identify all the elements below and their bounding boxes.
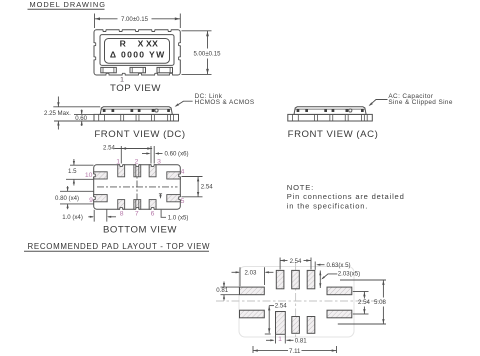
bottom view dim 0.80 (x4) bbox=[60, 190, 94, 192]
svg-text:FRONT VIEW (AC): FRONT VIEW (AC) bbox=[288, 129, 379, 140]
svg-text:Δ 0000 YW: Δ 0000 YW bbox=[110, 49, 166, 59]
svg-text:2.03: 2.03 bbox=[245, 270, 257, 277]
svg-text:2.54: 2.54 bbox=[201, 183, 213, 190]
front view base bbox=[288, 114, 373, 121]
svg-text:7.00±0.15: 7.00±0.15 bbox=[121, 16, 149, 23]
AC leader line bbox=[370, 100, 388, 106]
svg-text:9: 9 bbox=[89, 197, 93, 204]
svg-text:2.54: 2.54 bbox=[103, 145, 115, 152]
svg-text:2: 2 bbox=[135, 158, 139, 165]
bottom view notches bbox=[120, 164, 123, 166]
dimension 0.60 extension bbox=[74, 113, 94, 115]
svg-text:TOP VIEW: TOP VIEW bbox=[110, 83, 161, 94]
front view lid contact marks bbox=[103, 109, 106, 112]
front view base bbox=[94, 114, 179, 121]
svg-text:0.81: 0.81 bbox=[295, 338, 307, 345]
dimension 0.60 arrows bbox=[81, 110, 83, 115]
svg-text:5: 5 bbox=[181, 198, 185, 205]
svg-text:1: 1 bbox=[278, 336, 282, 343]
svg-text:Pin connections are detailed: Pin connections are detailed bbox=[287, 192, 405, 201]
svg-text:in the specification.: in the specification. bbox=[287, 201, 368, 210]
pad layout center lines bbox=[216, 300, 384, 302]
pad layout dim 2.03 left bbox=[239, 267, 241, 286]
top view marking area bbox=[105, 39, 170, 64]
svg-text:1.0 (x4): 1.0 (x4) bbox=[62, 214, 83, 221]
pad layout dim 0.63(x 5) bbox=[314, 262, 316, 270]
top view edge notches bbox=[103, 29, 106, 31]
front view lid circle mark bbox=[155, 109, 158, 112]
svg-text:2.54: 2.54 bbox=[275, 303, 287, 310]
pad layout dim 0.81 left bbox=[221, 286, 240, 288]
front view lid contact marks bbox=[297, 109, 300, 112]
svg-text:X: X bbox=[138, 39, 144, 49]
bottom view pad 1 bbox=[118, 165, 125, 177]
front view lid circle mark bbox=[349, 109, 352, 112]
svg-text:0.63(x 5): 0.63(x 5) bbox=[327, 262, 351, 269]
pad layout right pads bbox=[327, 287, 352, 295]
svg-text:1.0 (x5): 1.0 (x5) bbox=[168, 214, 189, 221]
svg-text:0.80 (x4): 0.80 (x4) bbox=[55, 195, 79, 202]
bottom view pad 8 bbox=[118, 200, 125, 210]
top view package body bbox=[94, 30, 180, 75]
top view bottom pads bbox=[101, 67, 117, 72]
front view base dividers bbox=[98, 114, 100, 121]
svg-text:2.54: 2.54 bbox=[358, 299, 370, 306]
svg-text:0.60: 0.60 bbox=[75, 115, 87, 122]
bottom view dim 2.54 top bbox=[120, 146, 122, 164]
pad layout faint outline bbox=[239, 267, 354, 338]
svg-text:RECOMMENDED PAD LAYOUT - TOP: RECOMMENDED PAD LAYOUT - TOP VIEW bbox=[28, 242, 211, 251]
svg-text:MODEL DRAWING: MODEL DRAWING bbox=[30, 0, 107, 9]
dimension 5.00 line bbox=[207, 31, 209, 49]
svg-text:7.11: 7.11 bbox=[289, 348, 301, 355]
pad layout dim 0.81 bottom bbox=[275, 335, 277, 344]
bottom view pad 7 bbox=[134, 200, 141, 210]
bottom view pad 6 bbox=[149, 200, 156, 210]
svg-text:2.25 Max.: 2.25 Max. bbox=[44, 110, 71, 117]
dimension 5.00 extension lines bbox=[182, 30, 212, 32]
pad layout dim 7.11 bbox=[252, 346, 254, 353]
bottom view dim 1.0 (x4) bbox=[93, 210, 95, 222]
front view lid bbox=[294, 107, 366, 115]
svg-text:NOTE:: NOTE: bbox=[287, 183, 314, 192]
pad layout dim 2.54 top bbox=[279, 258, 281, 270]
front view lid bbox=[100, 107, 172, 115]
dimension 2.25 Max arrows bbox=[57, 97, 59, 107]
svg-text:XX: XX bbox=[146, 39, 158, 49]
pad layout left pads bbox=[240, 287, 265, 295]
pad layout dim 2.54 center bbox=[268, 306, 270, 334]
bottom view center lines bbox=[97, 186, 178, 188]
bottom view dim 1.0 (x5) bbox=[159, 193, 162, 195]
svg-text:5.08: 5.08 bbox=[374, 299, 386, 306]
pad layout bottom pad pin1 bbox=[276, 312, 286, 335]
bottom view dim 0.60 (x6) bbox=[150, 146, 152, 164]
DC leader line bbox=[176, 101, 193, 106]
svg-text:1.5: 1.5 bbox=[68, 168, 77, 175]
bottom view package outline bbox=[94, 165, 181, 209]
bottom view pad 2 bbox=[134, 165, 141, 177]
svg-text:7: 7 bbox=[135, 211, 139, 218]
svg-text:HCMOS & ACMOS: HCMOS & ACMOS bbox=[195, 99, 255, 106]
svg-text:Sine & Clipped Sine: Sine & Clipped Sine bbox=[388, 99, 452, 106]
dimension 7.00 line bbox=[95, 18, 118, 20]
bottom view pad 9 bbox=[94, 195, 108, 202]
bottom view pad 10 bbox=[94, 172, 108, 179]
svg-text:5.00±0.15: 5.00±0.15 bbox=[193, 51, 221, 58]
svg-text:4: 4 bbox=[181, 168, 185, 175]
svg-text:BOTTOM VIEW: BOTTOM VIEW bbox=[103, 225, 177, 236]
top view lid outline bbox=[100, 35, 174, 66]
pad layout dim 2.03(x5) bbox=[319, 271, 321, 289]
pad layout bottom pads 2,3 bbox=[292, 317, 300, 334]
svg-text:6: 6 bbox=[151, 211, 155, 218]
svg-text:0.81: 0.81 bbox=[216, 287, 228, 294]
front view base dividers bbox=[292, 114, 294, 121]
bottom view dim 1.5 bbox=[70, 164, 94, 166]
svg-text:FRONT VIEW (DC): FRONT VIEW (DC) bbox=[94, 129, 185, 140]
svg-text:10: 10 bbox=[85, 172, 93, 179]
svg-text:1: 1 bbox=[116, 158, 120, 165]
svg-text:2.03(x5): 2.03(x5) bbox=[338, 271, 360, 278]
svg-text:3: 3 bbox=[157, 158, 161, 165]
bottom view dim 2.54 right bbox=[182, 176, 203, 178]
svg-text:0.60 (x6): 0.60 (x6) bbox=[165, 151, 189, 158]
dimension 2.25 Max extension lines bbox=[53, 106, 100, 108]
pad layout top pads bbox=[276, 270, 284, 288]
bottom view pad 5 bbox=[167, 195, 181, 202]
pad layout dim 2.54 right bbox=[353, 291, 369, 293]
svg-text:2.54: 2.54 bbox=[290, 258, 302, 265]
svg-text:8: 8 bbox=[120, 211, 124, 218]
dimension 7.00 extension lines bbox=[94, 14, 96, 29]
bottom view pad 3 bbox=[149, 165, 156, 177]
svg-text:R: R bbox=[120, 39, 127, 49]
bottom view pad 4 bbox=[167, 172, 181, 179]
pad layout dim 5.08 bbox=[340, 279, 386, 281]
